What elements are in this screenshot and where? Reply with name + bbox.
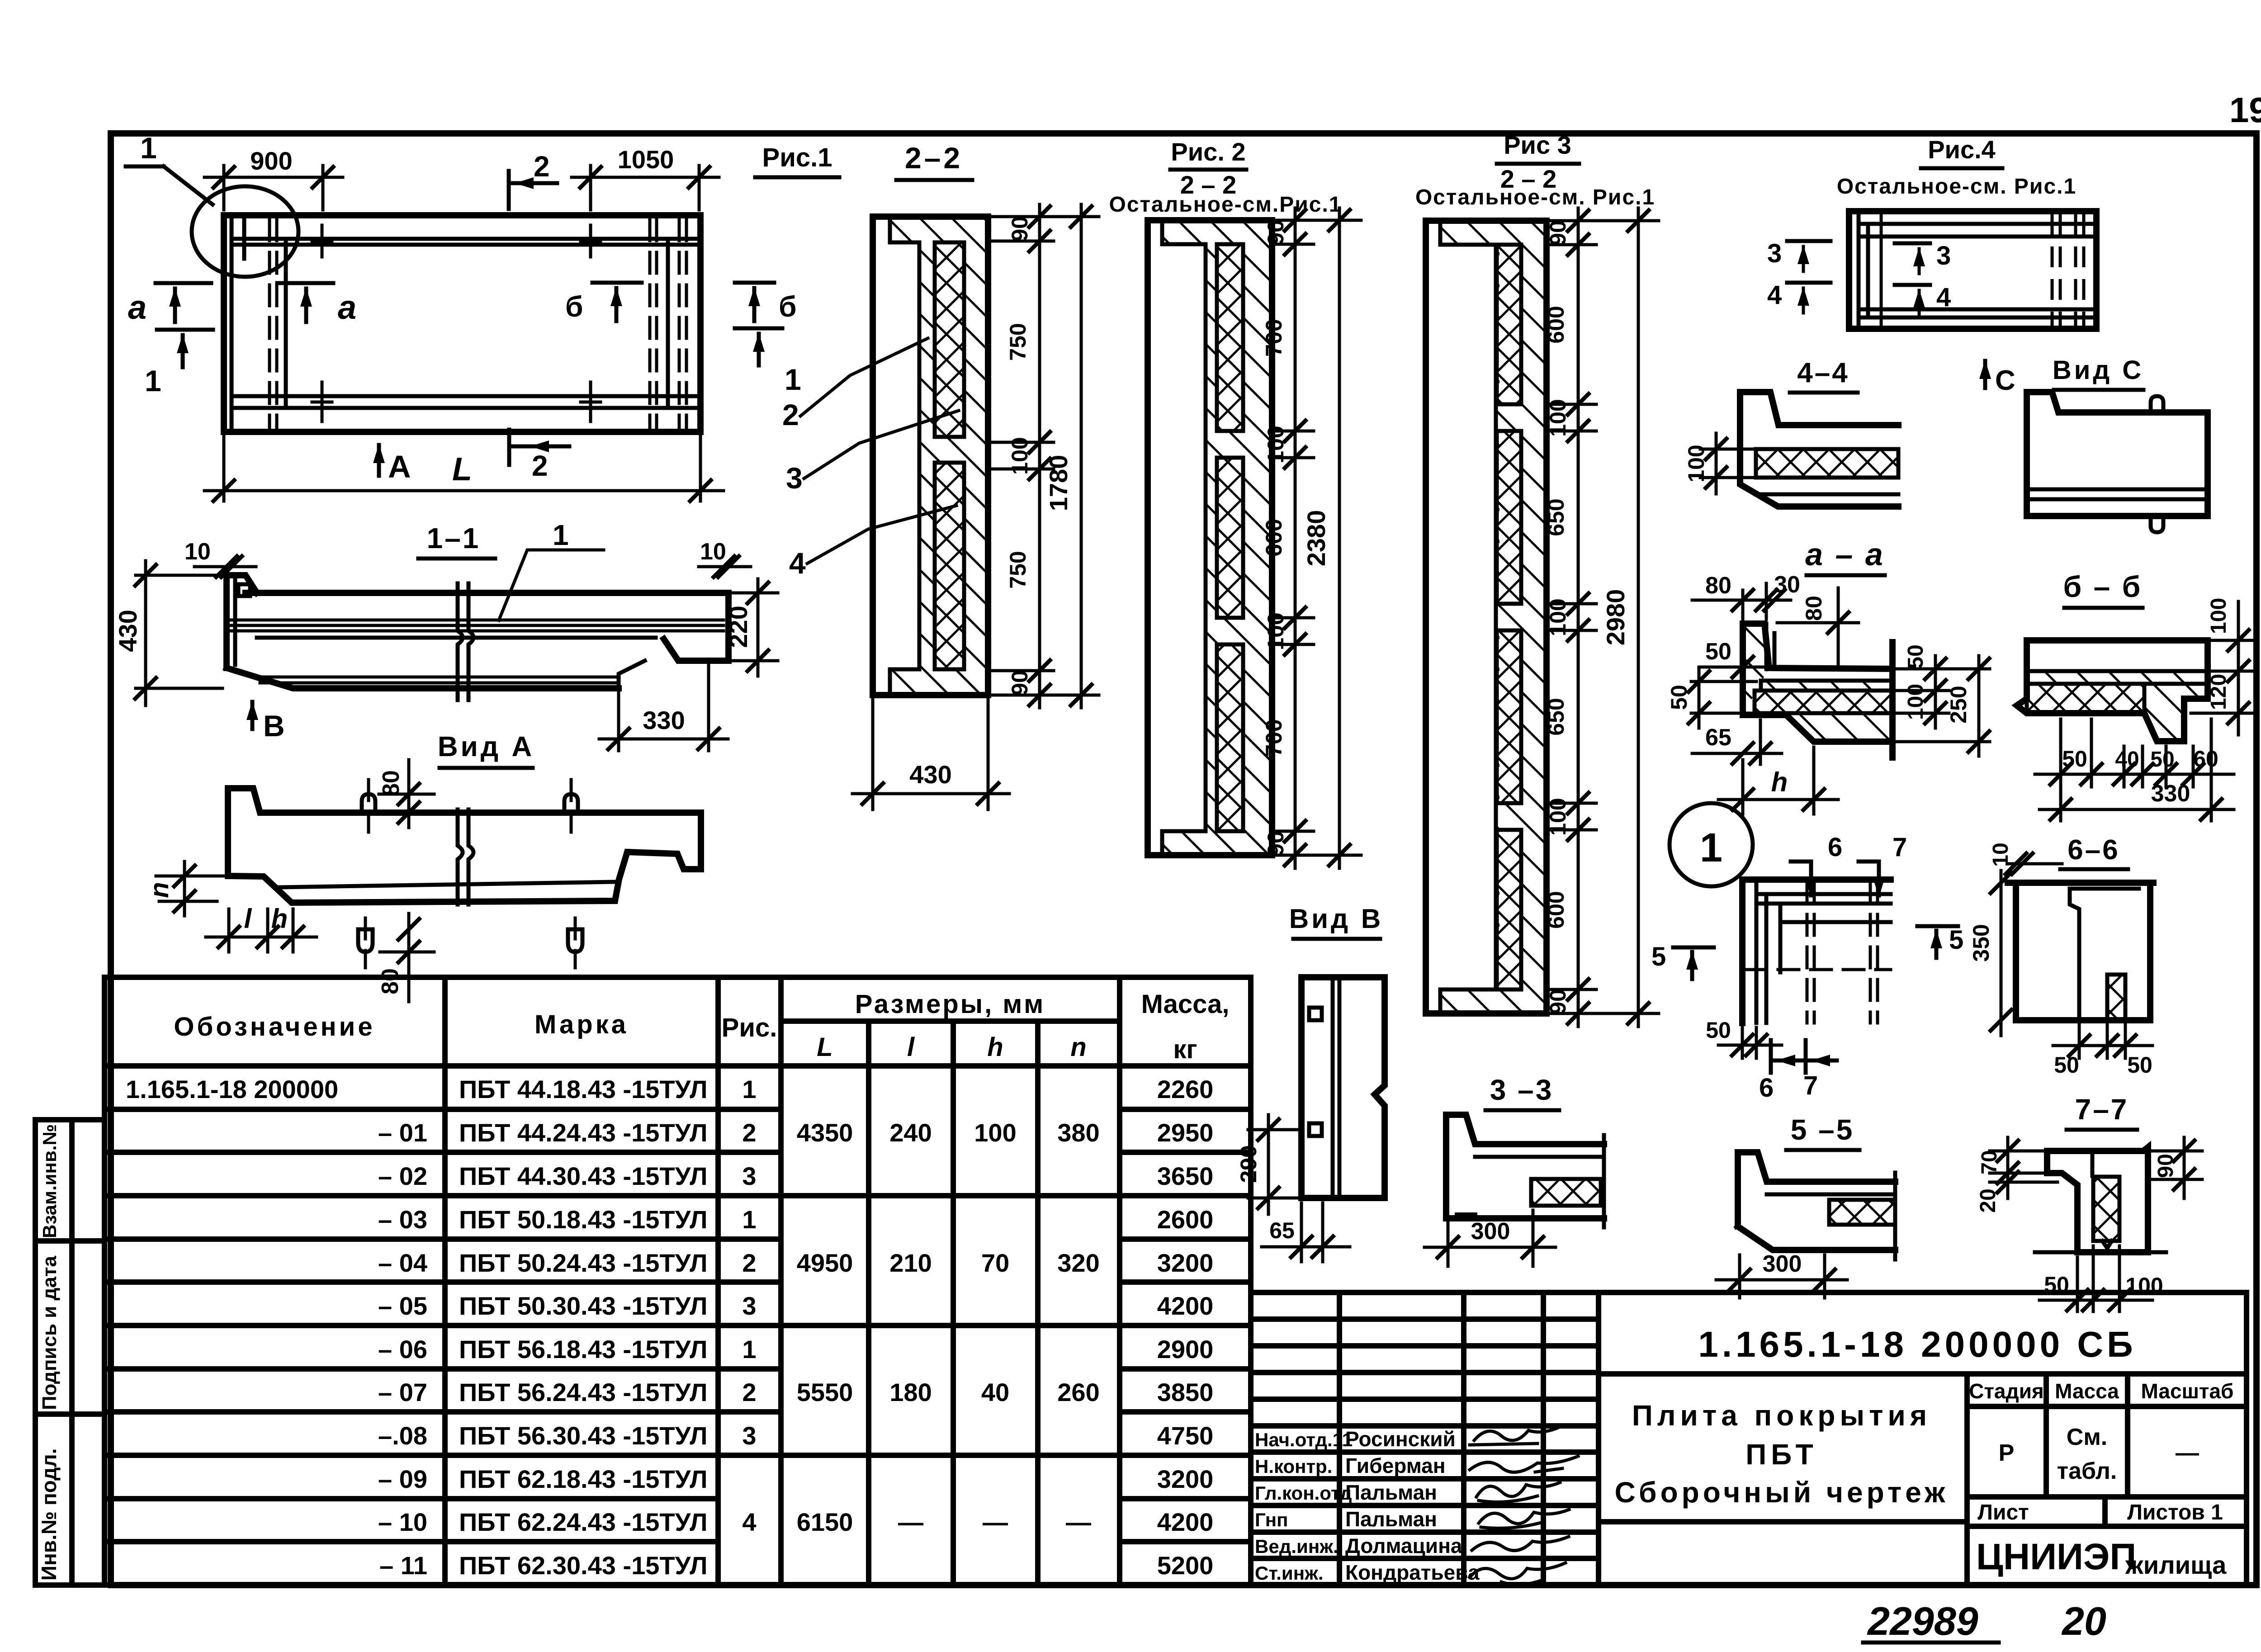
svg-text:Долмацина: Долмацина <box>1345 1534 1462 1557</box>
svg-text:50: 50 <box>1666 685 1692 710</box>
Рис.3 dim 2980 <box>1601 208 1649 1027</box>
Вид B dim 65 <box>1262 1203 1350 1262</box>
dim 430 <box>114 561 222 705</box>
svg-text:Рис.1: Рис.1 <box>762 143 833 172</box>
svg-text:700: 700 <box>1261 319 1287 356</box>
svg-text:90: 90 <box>1545 220 1570 246</box>
svg-text:750: 750 <box>1005 323 1031 360</box>
svg-text:1: 1 <box>742 1205 756 1234</box>
svg-text:А: А <box>388 449 411 484</box>
svg-text:90: 90 <box>1545 989 1570 1014</box>
svg-text:30: 30 <box>1774 572 1800 598</box>
label Рис.3 <box>1415 131 1655 209</box>
a-a dims right 50 100 250 <box>1897 644 1990 756</box>
svg-text:220: 220 <box>724 606 752 648</box>
svg-text:ПБТ 44.24.43 -15ТУЛ: ПБТ 44.24.43 -15ТУЛ <box>459 1118 708 1147</box>
svg-text:– 04: – 04 <box>378 1249 427 1277</box>
svg-text:Лист: Лист <box>1977 1501 2029 1524</box>
svg-text:– 10: – 10 <box>378 1508 427 1536</box>
svg-text:50: 50 <box>2127 1052 2152 1078</box>
svg-text:430: 430 <box>909 760 951 789</box>
svg-text:80: 80 <box>1705 573 1731 599</box>
dim n left <box>145 862 224 916</box>
svg-text:240: 240 <box>889 1118 932 1147</box>
svg-text:50: 50 <box>1904 644 1928 668</box>
svg-text:ПБТ 50.18.43 -15ТУЛ: ПБТ 50.18.43 -15ТУЛ <box>459 1205 708 1234</box>
svg-text:Ст.инж.: Ст.инж. <box>1255 1562 1324 1584</box>
svg-text:20: 20 <box>2061 1599 2106 1643</box>
a-a dim 30 <box>1764 572 1800 611</box>
label 3-3 <box>1485 1074 1559 1110</box>
svg-text:290: 290 <box>1236 1145 1261 1183</box>
svg-text:90: 90 <box>2154 1154 2178 1178</box>
svg-text:1: 1 <box>1700 825 1722 871</box>
svg-text:70: 70 <box>981 1249 1009 1277</box>
svg-text:300: 300 <box>1471 1218 1510 1245</box>
svg-text:90: 90 <box>1007 670 1032 696</box>
svg-text:3: 3 <box>742 1292 756 1320</box>
label 7-7 <box>2067 1093 2137 1130</box>
a-a dim h <box>1718 747 1838 814</box>
svg-text:В: В <box>263 709 285 743</box>
dim 220 <box>724 579 778 676</box>
Рис.4 plan outline <box>1849 211 2096 329</box>
svg-text:600: 600 <box>1543 306 1569 343</box>
2-2 insulation strip top <box>935 242 964 437</box>
1-1 rebar lines <box>231 620 724 683</box>
svg-text:– 06: – 06 <box>378 1335 427 1363</box>
svg-text:Сборочный чертеж: Сборочный чертеж <box>1615 1476 1949 1509</box>
plan tick crosses <box>312 225 601 421</box>
svg-text:Листов 1: Листов 1 <box>2127 1501 2223 1524</box>
svg-text:Н.контр.: Н.контр. <box>1255 1456 1332 1477</box>
title block signature rows <box>1255 1427 1480 1584</box>
svg-text:2900: 2900 <box>1157 1335 1214 1363</box>
6-6 dim 350 <box>1968 871 2011 1036</box>
Рис.3 outline <box>1426 221 1547 1013</box>
svg-text:—: — <box>898 1508 923 1536</box>
svg-text:—: — <box>1066 1508 1091 1536</box>
svg-text:10: 10 <box>184 539 211 565</box>
svg-text:1–1: 1–1 <box>427 522 481 554</box>
svg-text:1: 1 <box>742 1335 756 1363</box>
svg-text:a: a <box>338 289 356 326</box>
4-4 dim 100 <box>1684 433 1752 494</box>
svg-text:100: 100 <box>1263 426 1288 463</box>
svg-text:300: 300 <box>1763 1251 1802 1277</box>
svg-text:2: 2 <box>742 1378 756 1406</box>
label a-a <box>1805 537 1885 575</box>
a-a dim 80 top <box>1692 573 1791 619</box>
svg-text:—: — <box>2176 1440 2199 1466</box>
svg-text:Рис.4: Рис.4 <box>1928 135 1996 164</box>
Рис.3 hatch areas <box>1440 221 1547 1013</box>
svg-text:650: 650 <box>1543 698 1569 735</box>
lifting loop top left <box>362 780 375 832</box>
svg-text:Марка: Марка <box>535 1010 629 1039</box>
svg-text:40: 40 <box>981 1378 1009 1406</box>
svg-text:90: 90 <box>1263 220 1288 245</box>
svg-text:90: 90 <box>1007 216 1032 241</box>
svg-text:250: 250 <box>1946 686 1971 723</box>
7-7 dim 90 <box>2152 1137 2202 1198</box>
svg-text:100: 100 <box>1684 445 1709 482</box>
svg-text:1: 1 <box>742 1075 756 1103</box>
svg-text:100: 100 <box>2125 1273 2163 1298</box>
svg-text:10: 10 <box>1989 843 2013 866</box>
2-2 leader 3 <box>786 411 959 495</box>
svg-text:6150: 6150 <box>797 1508 853 1536</box>
svg-text:330: 330 <box>643 706 685 734</box>
svg-text:4200: 4200 <box>1157 1292 1214 1320</box>
1-1 left end block <box>227 575 257 668</box>
svg-text:900: 900 <box>250 147 292 175</box>
label 4-4 <box>1790 357 1858 393</box>
detail outline <box>1742 880 1891 1023</box>
svg-text:Подпись и дата: Подпись и дата <box>38 1256 61 1410</box>
svg-text:Размеры, мм: Размеры, мм <box>855 989 1045 1019</box>
svg-text:ПБТ 62.24.43 -15ТУЛ: ПБТ 62.24.43 -15ТУЛ <box>459 1508 708 1536</box>
svg-text:650: 650 <box>1543 498 1569 536</box>
svg-text:7: 7 <box>1803 1071 1818 1100</box>
Рис.2 insulation strips <box>1217 244 1243 831</box>
svg-text:22989: 22989 <box>1867 1599 1978 1643</box>
svg-text:50: 50 <box>2150 748 2174 772</box>
svg-text:l: l <box>244 904 252 934</box>
label 6-6 <box>2060 834 2128 869</box>
svg-text:20: 20 <box>1976 1188 2000 1212</box>
lifting loop top right <box>564 780 578 832</box>
svg-text:жилища: жилища <box>2125 1551 2227 1579</box>
svg-text:600: 600 <box>1261 519 1287 556</box>
svg-text:– 02: – 02 <box>378 1162 427 1190</box>
svg-text:6: 6 <box>1759 1073 1774 1103</box>
б-б dims right <box>2191 598 2254 735</box>
svg-text:750: 750 <box>1005 551 1031 588</box>
specification table <box>104 977 1251 1585</box>
svg-text:l: l <box>907 1032 915 1062</box>
section marker б right <box>735 283 797 323</box>
svg-text:ПБТ 50.24.43 -15ТУЛ: ПБТ 50.24.43 -15ТУЛ <box>459 1249 708 1277</box>
svg-text:3200: 3200 <box>1157 1465 1214 1493</box>
svg-text:90: 90 <box>1263 831 1288 856</box>
leader 1 <box>499 519 604 620</box>
5-5 dim 300 <box>1716 1251 1847 1298</box>
detail marker 5 right <box>1917 925 1963 958</box>
Вид А break mark <box>458 809 473 904</box>
svg-text:ПБТ: ПБТ <box>1745 1438 1818 1471</box>
label Вид В <box>1289 904 1383 939</box>
2-2 dims right <box>993 204 1099 708</box>
svg-text:2: 2 <box>742 1249 756 1277</box>
table header text <box>174 989 1229 1064</box>
svg-text:3200: 3200 <box>1157 1249 1214 1277</box>
svg-text:1: 1 <box>553 519 569 551</box>
svg-text:– 09: – 09 <box>378 1465 427 1493</box>
svg-text:2980: 2980 <box>1601 589 1630 646</box>
svg-text:кг: кг <box>1173 1035 1197 1064</box>
svg-text:– 03: – 03 <box>378 1205 427 1234</box>
svg-text:80: 80 <box>377 968 403 994</box>
svg-text:3850: 3850 <box>1157 1378 1214 1406</box>
section marker 1 right <box>735 328 801 396</box>
svg-text:210: 210 <box>889 1249 932 1277</box>
3-3 body <box>1446 1115 1604 1227</box>
svg-text:б: б <box>565 290 583 323</box>
svg-text:1: 1 <box>785 363 801 396</box>
svg-text:Вид С: Вид С <box>2053 355 2144 385</box>
dim 10 right <box>699 539 751 577</box>
title block <box>1251 1292 2247 1585</box>
dim 10 left <box>184 539 256 577</box>
svg-text:5550: 5550 <box>797 1378 853 1406</box>
2-2 outline <box>873 217 988 695</box>
svg-text:– 07: – 07 <box>378 1378 427 1406</box>
a-a insulation layer <box>1755 691 1892 713</box>
svg-text:2950: 2950 <box>1157 1118 1214 1147</box>
detail callout circle 1 <box>126 131 298 277</box>
6-6 dims 50 50 <box>2053 1025 2152 1078</box>
svg-text:Гиберман: Гиберман <box>1345 1454 1446 1477</box>
svg-text:n: n <box>145 882 174 898</box>
svg-text:2600: 2600 <box>1157 1205 1214 1234</box>
Вид C outline <box>2027 392 2208 532</box>
svg-text:180: 180 <box>889 1378 932 1406</box>
svg-text:ПБТ 56.18.43 -15ТУЛ: ПБТ 56.18.43 -15ТУЛ <box>459 1335 708 1363</box>
svg-text:10: 10 <box>700 539 726 565</box>
svg-text:6–6: 6–6 <box>2067 834 2119 866</box>
svg-text:Рис.: Рис. <box>722 1013 777 1042</box>
svg-text:100: 100 <box>974 1118 1016 1147</box>
svg-text:ПБТ 44.30.43 -15ТУЛ: ПБТ 44.30.43 -15ТУЛ <box>459 1162 708 1190</box>
svg-text:2: 2 <box>782 398 799 431</box>
lifting loop bottom left <box>358 918 373 968</box>
title block main texts <box>1615 1324 2234 1579</box>
Рис.2 hatch areas <box>1162 220 1272 855</box>
svg-text:120: 120 <box>2207 674 2231 710</box>
svg-text:Нач.отд.11: Нач.отд.11 <box>1255 1429 1353 1450</box>
plan bottom rib lines <box>232 396 699 408</box>
2-2 dim 430 <box>852 700 1009 809</box>
svg-text:330: 330 <box>2151 781 2190 807</box>
svg-text:1.165.1-18 200000: 1.165.1-18 200000 <box>126 1075 338 1103</box>
svg-text:430: 430 <box>114 610 142 652</box>
svg-text:60: 60 <box>2193 746 2218 772</box>
svg-text:3: 3 <box>786 461 803 495</box>
svg-text:19: 19 <box>2229 90 2261 130</box>
svg-text:7: 7 <box>1892 833 1907 862</box>
svg-text:h: h <box>987 1032 1003 1062</box>
7-7 body <box>2035 1147 2166 1252</box>
4-4 body <box>1740 392 1898 506</box>
svg-text:h: h <box>271 904 288 934</box>
б-б body <box>2017 640 2208 741</box>
svg-text:6: 6 <box>1828 833 1842 862</box>
svg-text:Пальман: Пальман <box>1345 1481 1437 1504</box>
svg-text:4200: 4200 <box>1157 1508 1214 1536</box>
svg-text:40: 40 <box>2115 748 2139 772</box>
svg-text:3: 3 <box>742 1162 756 1190</box>
svg-text:2: 2 <box>534 150 550 183</box>
svg-text:ПБТ 62.30.43 -15ТУЛ: ПБТ 62.30.43 -15ТУЛ <box>459 1551 708 1580</box>
svg-text:100: 100 <box>1263 612 1288 650</box>
svg-text:– 11: – 11 <box>379 1551 427 1580</box>
dim 330 <box>599 665 728 751</box>
2-2 leader 4 <box>789 506 956 580</box>
plan left rib lines <box>232 217 286 431</box>
svg-text:2260: 2260 <box>1157 1075 1214 1103</box>
label Вид А <box>438 731 535 768</box>
label Вид C <box>2053 355 2144 390</box>
Рис.4 markers 3 4 left <box>1767 239 1831 313</box>
svg-text:2: 2 <box>532 450 548 482</box>
svg-text:100: 100 <box>1007 437 1032 474</box>
svg-text:80: 80 <box>378 770 404 796</box>
Вид B dim 290 <box>1236 1115 1297 1214</box>
svg-text:50: 50 <box>2044 1272 2069 1297</box>
svg-text:ПБТ 56.24.43 -15ТУЛ: ПБТ 56.24.43 -15ТУЛ <box>459 1378 708 1406</box>
view marker A <box>373 444 411 484</box>
svg-text:a: a <box>128 289 147 326</box>
svg-text:ПБТ 62.18.43 -15ТУЛ: ПБТ 62.18.43 -15ТУЛ <box>459 1465 708 1493</box>
2-2 hatch areas <box>890 217 988 695</box>
stamp number 22989 20 <box>1863 1599 2106 1643</box>
Рис.3 insulation strips <box>1497 245 1521 989</box>
svg-text:Остальное-см. Рис.1: Остальное-см. Рис.1 <box>1415 185 1655 209</box>
signatures squiggles <box>1470 1427 1578 1585</box>
svg-text:3: 3 <box>742 1421 756 1450</box>
a-a dim 50 upper left <box>1699 639 1764 677</box>
view marker B <box>246 701 285 743</box>
svg-text:100: 100 <box>2207 598 2231 634</box>
svg-text:–.08: –.08 <box>378 1421 427 1450</box>
Рис.3 dims right <box>1543 208 1659 1027</box>
svg-text:70: 70 <box>1977 1150 2001 1174</box>
svg-text:б: б <box>779 290 797 323</box>
svg-text:260: 260 <box>1057 1378 1099 1406</box>
a-a rib <box>1743 624 1774 715</box>
label Рис.4 <box>1837 135 2077 199</box>
lifting loop bottom right <box>568 918 582 968</box>
svg-text:a – a: a – a <box>1805 537 1885 572</box>
Рис.2 dim 2380 <box>1302 208 1350 868</box>
Рис.4 markers 3 4 inside <box>1895 241 1951 315</box>
svg-text:700: 700 <box>1261 719 1287 757</box>
svg-text:Стадия: Стадия <box>1969 1379 2044 1403</box>
svg-text:3 –3: 3 –3 <box>1490 1074 1554 1106</box>
label Рис.2 <box>1109 137 1342 217</box>
Рис.2 dims right <box>1261 208 1361 868</box>
svg-text:3: 3 <box>1767 239 1782 268</box>
svg-text:5200: 5200 <box>1157 1551 1214 1580</box>
3-3 dim 300 <box>1424 1210 1556 1266</box>
svg-text:ЦНИИЭП: ЦНИИЭП <box>1976 1536 2136 1577</box>
detail marker 7 top <box>1859 833 1907 897</box>
svg-text:65: 65 <box>1705 724 1731 751</box>
svg-text:1.165.1-18 200000 СБ: 1.165.1-18 200000 СБ <box>1698 1324 2136 1364</box>
svg-text:n: n <box>1070 1032 1086 1062</box>
a-a bottom concrete <box>1743 642 1892 757</box>
plan outline <box>224 215 700 432</box>
label 1-1 <box>418 522 495 559</box>
svg-text:100: 100 <box>1545 798 1570 835</box>
svg-text:1: 1 <box>145 364 161 398</box>
svg-text:Рис 3: Рис 3 <box>1504 131 1571 159</box>
dim 1050 <box>572 145 719 210</box>
svg-text:65: 65 <box>1269 1218 1295 1243</box>
svg-text:ПБТ 44.18.43 -15ТУЛ: ПБТ 44.18.43 -15ТУЛ <box>459 1075 708 1103</box>
svg-text:Гл.кон.отд: Гл.кон.отд <box>1255 1482 1352 1504</box>
svg-text:50: 50 <box>2062 746 2087 772</box>
svg-text:350: 350 <box>1968 924 1994 961</box>
section marker б left <box>565 283 642 323</box>
svg-text:Остальное-см. Рис.1: Остальное-см. Рис.1 <box>1837 175 2077 199</box>
svg-text:3650: 3650 <box>1157 1162 1214 1190</box>
dim 80 top <box>378 760 434 828</box>
label б-б <box>2063 570 2143 608</box>
svg-text:600: 600 <box>1543 891 1569 928</box>
svg-text:3: 3 <box>1936 241 1951 270</box>
svg-text:Плита покрытия: Плита покрытия <box>1632 1399 1931 1432</box>
a-a dim 50 rot left <box>1666 667 1756 728</box>
view marker C <box>1979 360 2015 396</box>
svg-text:4950: 4950 <box>797 1249 853 1277</box>
section marker 2 top <box>509 150 557 209</box>
svg-text:Р: Р <box>1999 1440 2015 1466</box>
svg-text:1: 1 <box>140 131 157 165</box>
svg-text:С: С <box>1995 365 2015 396</box>
dim 80 bottom <box>377 914 434 1002</box>
svg-text:– 05: – 05 <box>378 1292 427 1320</box>
a-a dim 65 <box>1692 720 1782 764</box>
svg-text:Гнп: Гнп <box>1255 1509 1288 1530</box>
svg-text:2380: 2380 <box>1302 510 1330 567</box>
svg-text:50: 50 <box>2054 1052 2079 1078</box>
6-6 body <box>2008 883 2153 1020</box>
Рис.2 outline <box>1148 220 1272 855</box>
7-7 dims 50 100 <box>2039 1246 2163 1311</box>
page number 19 <box>2229 90 2261 130</box>
1-1 right end block <box>664 593 728 661</box>
plan right rib lines <box>650 220 686 429</box>
svg-text:L: L <box>817 1032 833 1062</box>
label 5-5 <box>1786 1113 1859 1150</box>
table data <box>126 1075 1213 1580</box>
1-1 slab body <box>227 593 728 688</box>
svg-text:Росинский: Росинский <box>1345 1427 1456 1451</box>
2-2 leader 2 <box>782 338 928 431</box>
svg-text:4: 4 <box>789 546 806 580</box>
a-a hatch layer <box>1761 681 1892 691</box>
svg-text:См.: См. <box>2067 1424 2107 1450</box>
6-6 dim 10 <box>1989 843 2062 874</box>
svg-text:5: 5 <box>1651 942 1666 971</box>
svg-text:h: h <box>1771 767 1788 797</box>
svg-text:Вед.инж.: Вед.инж. <box>1255 1536 1339 1557</box>
a-a slab top edge <box>1768 668 1892 669</box>
2-2 dim 1780 <box>1044 204 1092 708</box>
plan top rib lines <box>232 239 699 245</box>
section marker a left <box>128 283 211 326</box>
svg-text:—: — <box>983 1508 1008 1536</box>
svg-text:табл.: табл. <box>2057 1458 2117 1484</box>
svg-text:2: 2 <box>742 1118 756 1147</box>
б-б dims bottom <box>2035 719 2234 821</box>
svg-text:4750: 4750 <box>1157 1421 1214 1450</box>
svg-text:Вид В: Вид В <box>1289 904 1383 934</box>
detail dim 50 <box>1706 1018 1782 1058</box>
1-1 break marks <box>458 583 473 700</box>
